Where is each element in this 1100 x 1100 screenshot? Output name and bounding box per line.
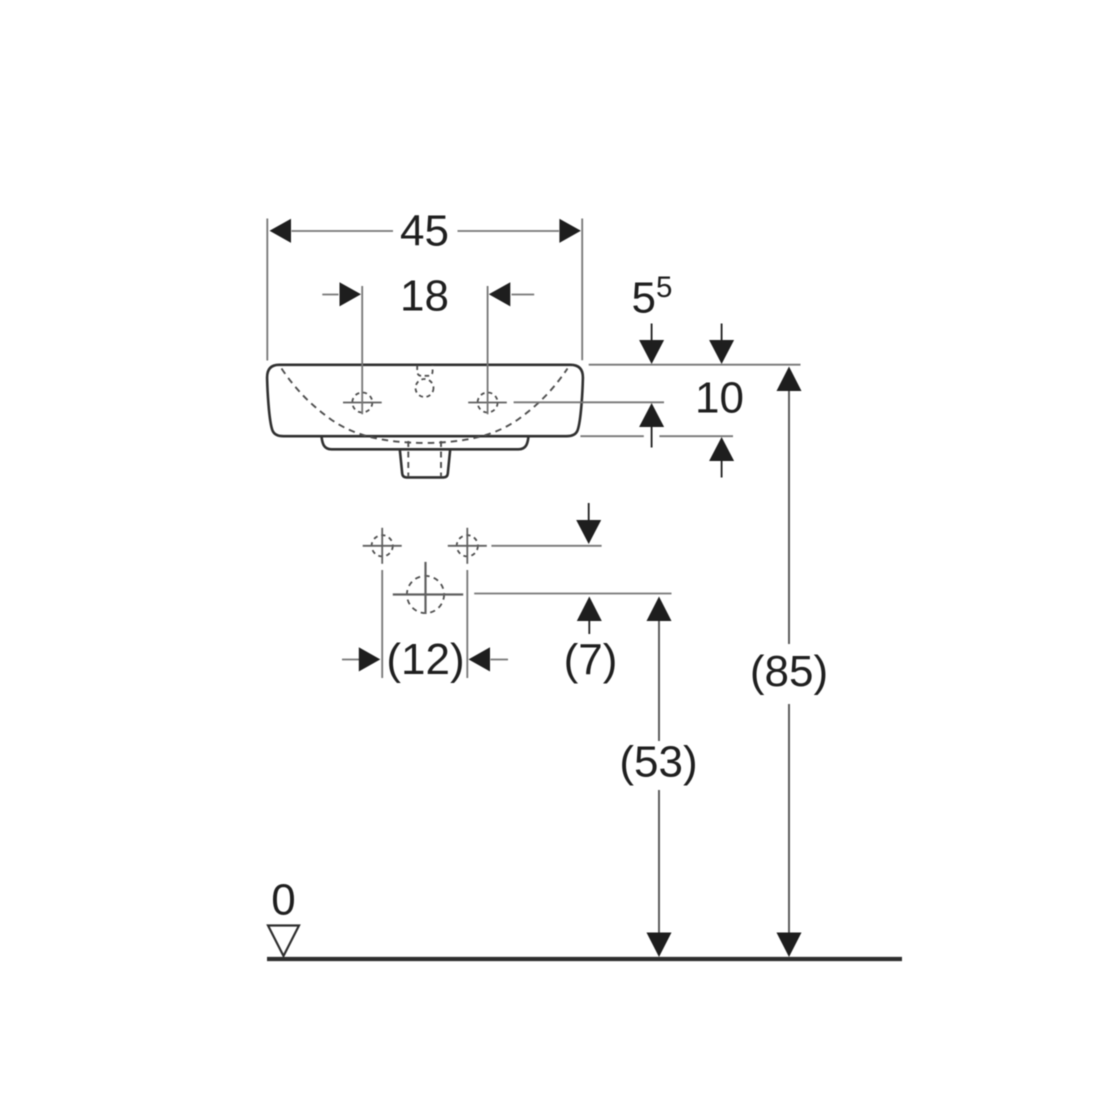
svg-text:(12): (12) (386, 635, 464, 684)
svg-text:18: 18 (400, 272, 449, 321)
svg-text:45: 45 (400, 207, 449, 256)
svg-text:(7): (7) (564, 636, 618, 685)
svg-text:10: 10 (695, 374, 744, 423)
svg-text:0: 0 (271, 876, 295, 925)
svg-text:(53): (53) (619, 738, 697, 787)
svg-text:(85): (85) (750, 647, 828, 696)
svg-text:55: 55 (632, 271, 673, 323)
